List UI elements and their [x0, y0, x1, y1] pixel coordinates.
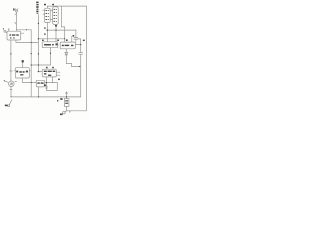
box U1 — [7, 31, 21, 40]
wire D1 jog — [66, 55, 80, 67]
wire bottom-right — [67, 110, 87, 112]
label column FIG — [36, 2, 38, 4]
wire h65 — [31, 64, 50, 66]
box U5 — [36, 80, 44, 87]
wire h30 — [46, 29, 76, 31]
wire left-middle bus — [30, 30, 32, 97]
wire E1 bottom pin — [46, 23, 48, 42]
arrow up component — [66, 93, 68, 97]
arrowhead down left — [10, 53, 12, 55]
label crystal left — [60, 98, 62, 100]
wire C2 stub — [75, 39, 77, 42]
text U3 — [62, 45, 64, 47]
wire right mid bus — [80, 39, 82, 52]
text E1 ticks — [46, 9, 48, 12]
labels left of E1 pin — [44, 27, 45, 28]
wire h82b — [45, 82, 58, 84]
circle meter M1 — [9, 81, 15, 87]
wire bottom bus — [11, 96, 81, 98]
antenna A1 — [15, 9, 18, 32]
box U4 — [15, 68, 29, 78]
wire right mid bus lower — [80, 55, 82, 97]
text E2 ticks — [54, 8, 56, 11]
label antenna — [13, 9, 15, 11]
label 9V — [44, 84, 46, 86]
wire U4 top pin — [22, 63, 24, 68]
text U6 — [44, 71, 47, 72]
label above E1 — [44, 4, 46, 6]
text U4 — [16, 71, 18, 73]
wire U4 right tick — [28, 69, 31, 71]
arrowhead down bus31 — [30, 53, 32, 55]
wire E1 left stub1 — [43, 9, 45, 11]
wire U4 bottom pin — [21, 78, 23, 82]
label above E2 — [52, 4, 54, 5]
wire E2 bottom pin — [55, 24, 57, 41]
label U3 pins — [66, 39, 68, 41]
wire U3 top pin2 — [71, 36, 73, 42]
wire plus tick — [15, 80, 17, 82]
wire U6 right stub1 — [56, 71, 60, 73]
wire U1 bottom pin 2 — [16, 40, 39, 42]
box F244 — [42, 42, 58, 48]
label right of U6 — [58, 79, 60, 80]
wire U3 top pin1 — [64, 27, 66, 42]
label ground G1 — [5, 105, 8, 107]
wire h82 — [22, 81, 36, 83]
wire U6 bottom stub2 — [52, 77, 54, 83]
wire node bus left — [16, 29, 31, 31]
wire signal vertical — [37, 15, 39, 72]
wire F244 bottom pin — [50, 48, 52, 65]
ground symbol G1 — [8, 100, 12, 107]
wire top bus — [47, 5, 86, 7]
wire U1 bottom pin 1 — [10, 40, 12, 81]
wire U6 left pin — [38, 71, 42, 73]
wire v75 — [75, 30, 77, 37]
wire M1 down — [10, 87, 12, 97]
capacitor C2 — [74, 38, 78, 40]
wire tick2 — [10, 89, 12, 91]
label near right bus — [83, 40, 85, 41]
component E2 — [53, 7, 59, 25]
wire E1 top pin — [46, 6, 48, 8]
wire U5 bottom pin — [38, 87, 40, 97]
ground symbol G2 — [63, 111, 66, 114]
wire v61 jog — [62, 6, 65, 27]
box U3 — [60, 42, 75, 49]
wire mid horizontal — [38, 38, 64, 40]
dot right of G2 — [68, 110, 71, 113]
wire tie2 — [50, 18, 52, 20]
wire U6 right stub2 — [56, 74, 60, 76]
junction dots — [47, 30, 48, 31]
box U6 — [42, 69, 56, 77]
terminal T1 — [4, 30, 7, 33]
wire to crystal — [66, 97, 68, 99]
wire X1 down — [66, 106, 68, 110]
arrowhead down F244 pin — [50, 53, 52, 55]
wire E1 left stub2 — [43, 13, 45, 15]
arrowhead down mid — [38, 53, 40, 55]
dot above T1 — [3, 28, 4, 29]
wire right bus — [85, 6, 87, 111]
label above F244 left — [42, 40, 44, 41]
wire U3 right pin — [75, 44, 80, 46]
diode D1 — [65, 52, 68, 55]
crystal X1 — [64, 99, 69, 107]
labels U6 top pins — [46, 67, 48, 69]
dot above U1 stub — [8, 29, 9, 30]
capacitor C3 — [79, 53, 83, 55]
label E2 bottom pin — [55, 25, 57, 27]
battery B1 — [46, 83, 48, 91]
wire C2 link — [78, 38, 81, 40]
component E1 — [45, 8, 51, 22]
wire stub above U1 — [8, 29, 10, 31]
wire U1 right pin — [21, 32, 24, 34]
crystal bars — [65, 100, 68, 101]
wire U4 left tick — [13, 69, 16, 71]
wire U3 bottom pin — [65, 49, 67, 53]
arrowhead up — [38, 22, 40, 24]
terminal T2 — [4, 80, 5, 81]
label above U4 pin — [22, 60, 24, 62]
junction dot node wire — [26, 29, 27, 30]
text U5 — [37, 82, 39, 83]
wire tie1 — [50, 10, 52, 12]
arrowhead right h66 — [79, 66, 81, 67]
wire tick — [10, 70, 13, 72]
label above F244 right — [57, 40, 59, 41]
wire battery loop — [47, 83, 58, 91]
text U1 — [9, 34, 11, 35]
label ground G2 — [60, 114, 63, 116]
wire U6 bottom stub1 — [46, 77, 48, 83]
text F244 — [44, 44, 51, 46]
